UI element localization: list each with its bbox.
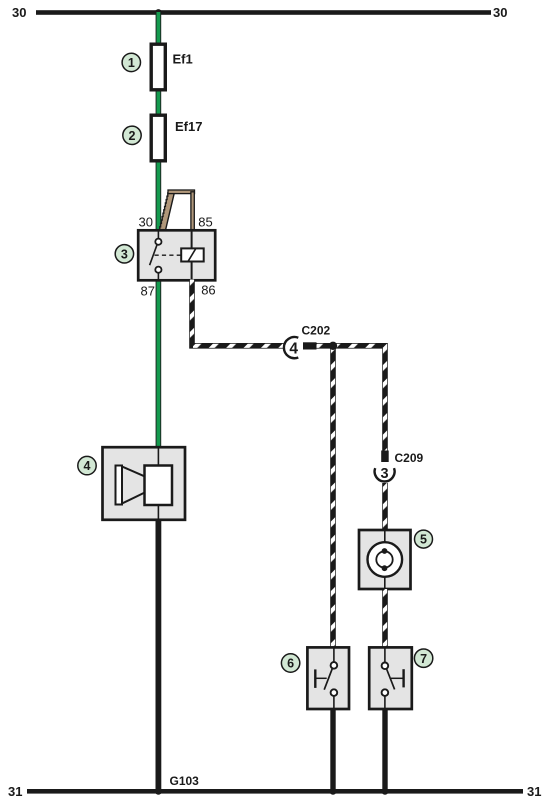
relay internal: switch lever (150, 245, 157, 265)
switch 7: bottom lead (384, 696, 386, 709)
fuse Ef17 (151, 115, 165, 161)
ground rail 31 (bottom bus) (27, 789, 523, 794)
switch 7: lever (387, 669, 395, 689)
wire: striped wire contact unit 5 to switch 7 (382, 589, 388, 647)
switch 6: actuator link (315, 677, 326, 679)
contact unit: top lead (384, 530, 386, 542)
wire: black wire switch 7 to ground bus (382, 709, 387, 791)
connector C209 pin rectangle (381, 451, 389, 463)
node: junction at C202 branch (329, 342, 337, 350)
svg-text:6: 6 (287, 657, 294, 671)
svg-text:3: 3 (121, 247, 128, 261)
relay internal: coil stub top (191, 230, 193, 248)
relay internal: pin87 stub (157, 273, 159, 280)
node: junction switch 7 wire on bus 31 (382, 788, 389, 795)
switch 7: top contact circle (382, 663, 389, 670)
switch 6: lever (324, 669, 332, 690)
contact unit top dot (382, 548, 388, 554)
svg-text:7: 7 (420, 652, 427, 666)
relay internal: coil stub bottom (191, 262, 193, 281)
wire: green wire fuse Ef17 to relay pin 30 (156, 162, 162, 232)
callout circle 2 (123, 126, 141, 144)
wire: striped wire junction right and down to C209 (333, 346, 385, 451)
wire: brown jumper from relay pin 30 to pin 85 (160, 190, 195, 230)
relay coil (181, 248, 204, 261)
horn internal: top lead (157, 447, 159, 465)
svg-text:30: 30 (493, 5, 507, 20)
svg-text:30: 30 (139, 214, 153, 229)
relay coil diagonal (188, 249, 196, 262)
svg-text:Ef17: Ef17 (175, 119, 202, 134)
relay internal: top contact circle (155, 239, 161, 245)
wire: black wire horn to ground bus (156, 520, 162, 791)
svg-text:4: 4 (84, 459, 91, 473)
connector C202 pin rectangle (303, 342, 317, 349)
switch 7: top lead (384, 647, 386, 662)
svg-text:Ef1: Ef1 (173, 52, 193, 67)
relay box (3) (138, 230, 215, 280)
horn box (4) (103, 447, 186, 520)
svg-text:5: 5 (420, 533, 427, 547)
horn diaphragm bar (116, 466, 123, 505)
callout circle 6 (281, 654, 299, 672)
contact unit box (5) (359, 530, 411, 589)
wire: striped wire C202 to junction (317, 343, 334, 349)
switch 6: bottom lead (333, 696, 335, 709)
horn internal: bottom lead (157, 505, 159, 520)
callout circle 1 (122, 53, 140, 71)
node: junction switch 6 wire on bus 31 (330, 788, 337, 795)
callout circle 5 (415, 530, 433, 548)
connector C209 arc (pin 3) (375, 466, 395, 482)
brown top horizontal segment (168, 190, 195, 194)
svg-text:87: 87 (141, 284, 155, 299)
svg-text:3: 3 (381, 466, 389, 482)
switch box (7) horn button 2 (369, 647, 412, 709)
contact unit outer circle (368, 542, 403, 577)
svg-text:C202: C202 (302, 323, 331, 337)
switch 6: top lead (333, 647, 335, 662)
svg-text:1: 1 (128, 56, 135, 70)
svg-text:4: 4 (289, 340, 298, 357)
wire: green wire bus30 to fuse Ef1 (156, 12, 162, 43)
wire: striped wire junction down to switch 6 (330, 346, 336, 648)
relay internal: dashed actuation line (155, 254, 182, 256)
node: junction of green wire on bus 30 (155, 9, 162, 16)
wire: green wire relay pin 87 to horn (156, 280, 162, 448)
switch 6: bottom contact circle (331, 689, 338, 696)
switch 7: actuator link (391, 677, 404, 679)
brown diagonal with stepped hatch edge (160, 193, 175, 230)
connector C202 arc (pin 4) (284, 337, 298, 358)
callout circle 3 (115, 245, 133, 263)
switch box (6) horn button (307, 647, 349, 709)
relay internal: pin30 stub to contact (157, 230, 159, 238)
horn cone top line (122, 467, 145, 477)
switch 7: bottom contact circle (382, 689, 389, 696)
svg-text:G103: G103 (170, 774, 200, 788)
svg-text:86: 86 (201, 283, 215, 298)
contact unit bottom dot (382, 565, 388, 571)
switch 6: top contact circle (331, 662, 338, 669)
node: ground junction G103 (155, 788, 162, 795)
svg-text:2: 2 (129, 129, 136, 143)
power rail 30 (top bus) (36, 10, 491, 15)
horn cone bottom line (122, 493, 145, 504)
contact unit inner ring (376, 551, 392, 567)
horn magnet rectangle (145, 466, 173, 506)
wire: black/white striped wire relay pin 86 down and right to C202 (192, 280, 284, 346)
svg-text:31: 31 (527, 784, 541, 799)
svg-text:85: 85 (198, 214, 212, 229)
svg-text:31: 31 (8, 784, 22, 799)
wire: green wire fuse Ef1 to fuse Ef17 (156, 91, 162, 114)
svg-text:30: 30 (12, 5, 26, 20)
relay internal: bottom contact circle (155, 267, 161, 273)
callout circle 4 (78, 456, 96, 474)
wire: striped wire C209 to contact unit 5 (382, 483, 388, 530)
switch 6: push actuator bar (314, 669, 316, 688)
svg-text:C209: C209 (395, 451, 424, 465)
contact unit: bottom lead (384, 577, 386, 589)
callout circle 7 (414, 649, 432, 667)
switch 7: push actuator bar (402, 669, 404, 687)
wire: black wire switch 6 to ground bus (330, 709, 335, 791)
fuse Ef1 (151, 44, 165, 90)
brown vertical segment to pin 85 (191, 192, 194, 230)
